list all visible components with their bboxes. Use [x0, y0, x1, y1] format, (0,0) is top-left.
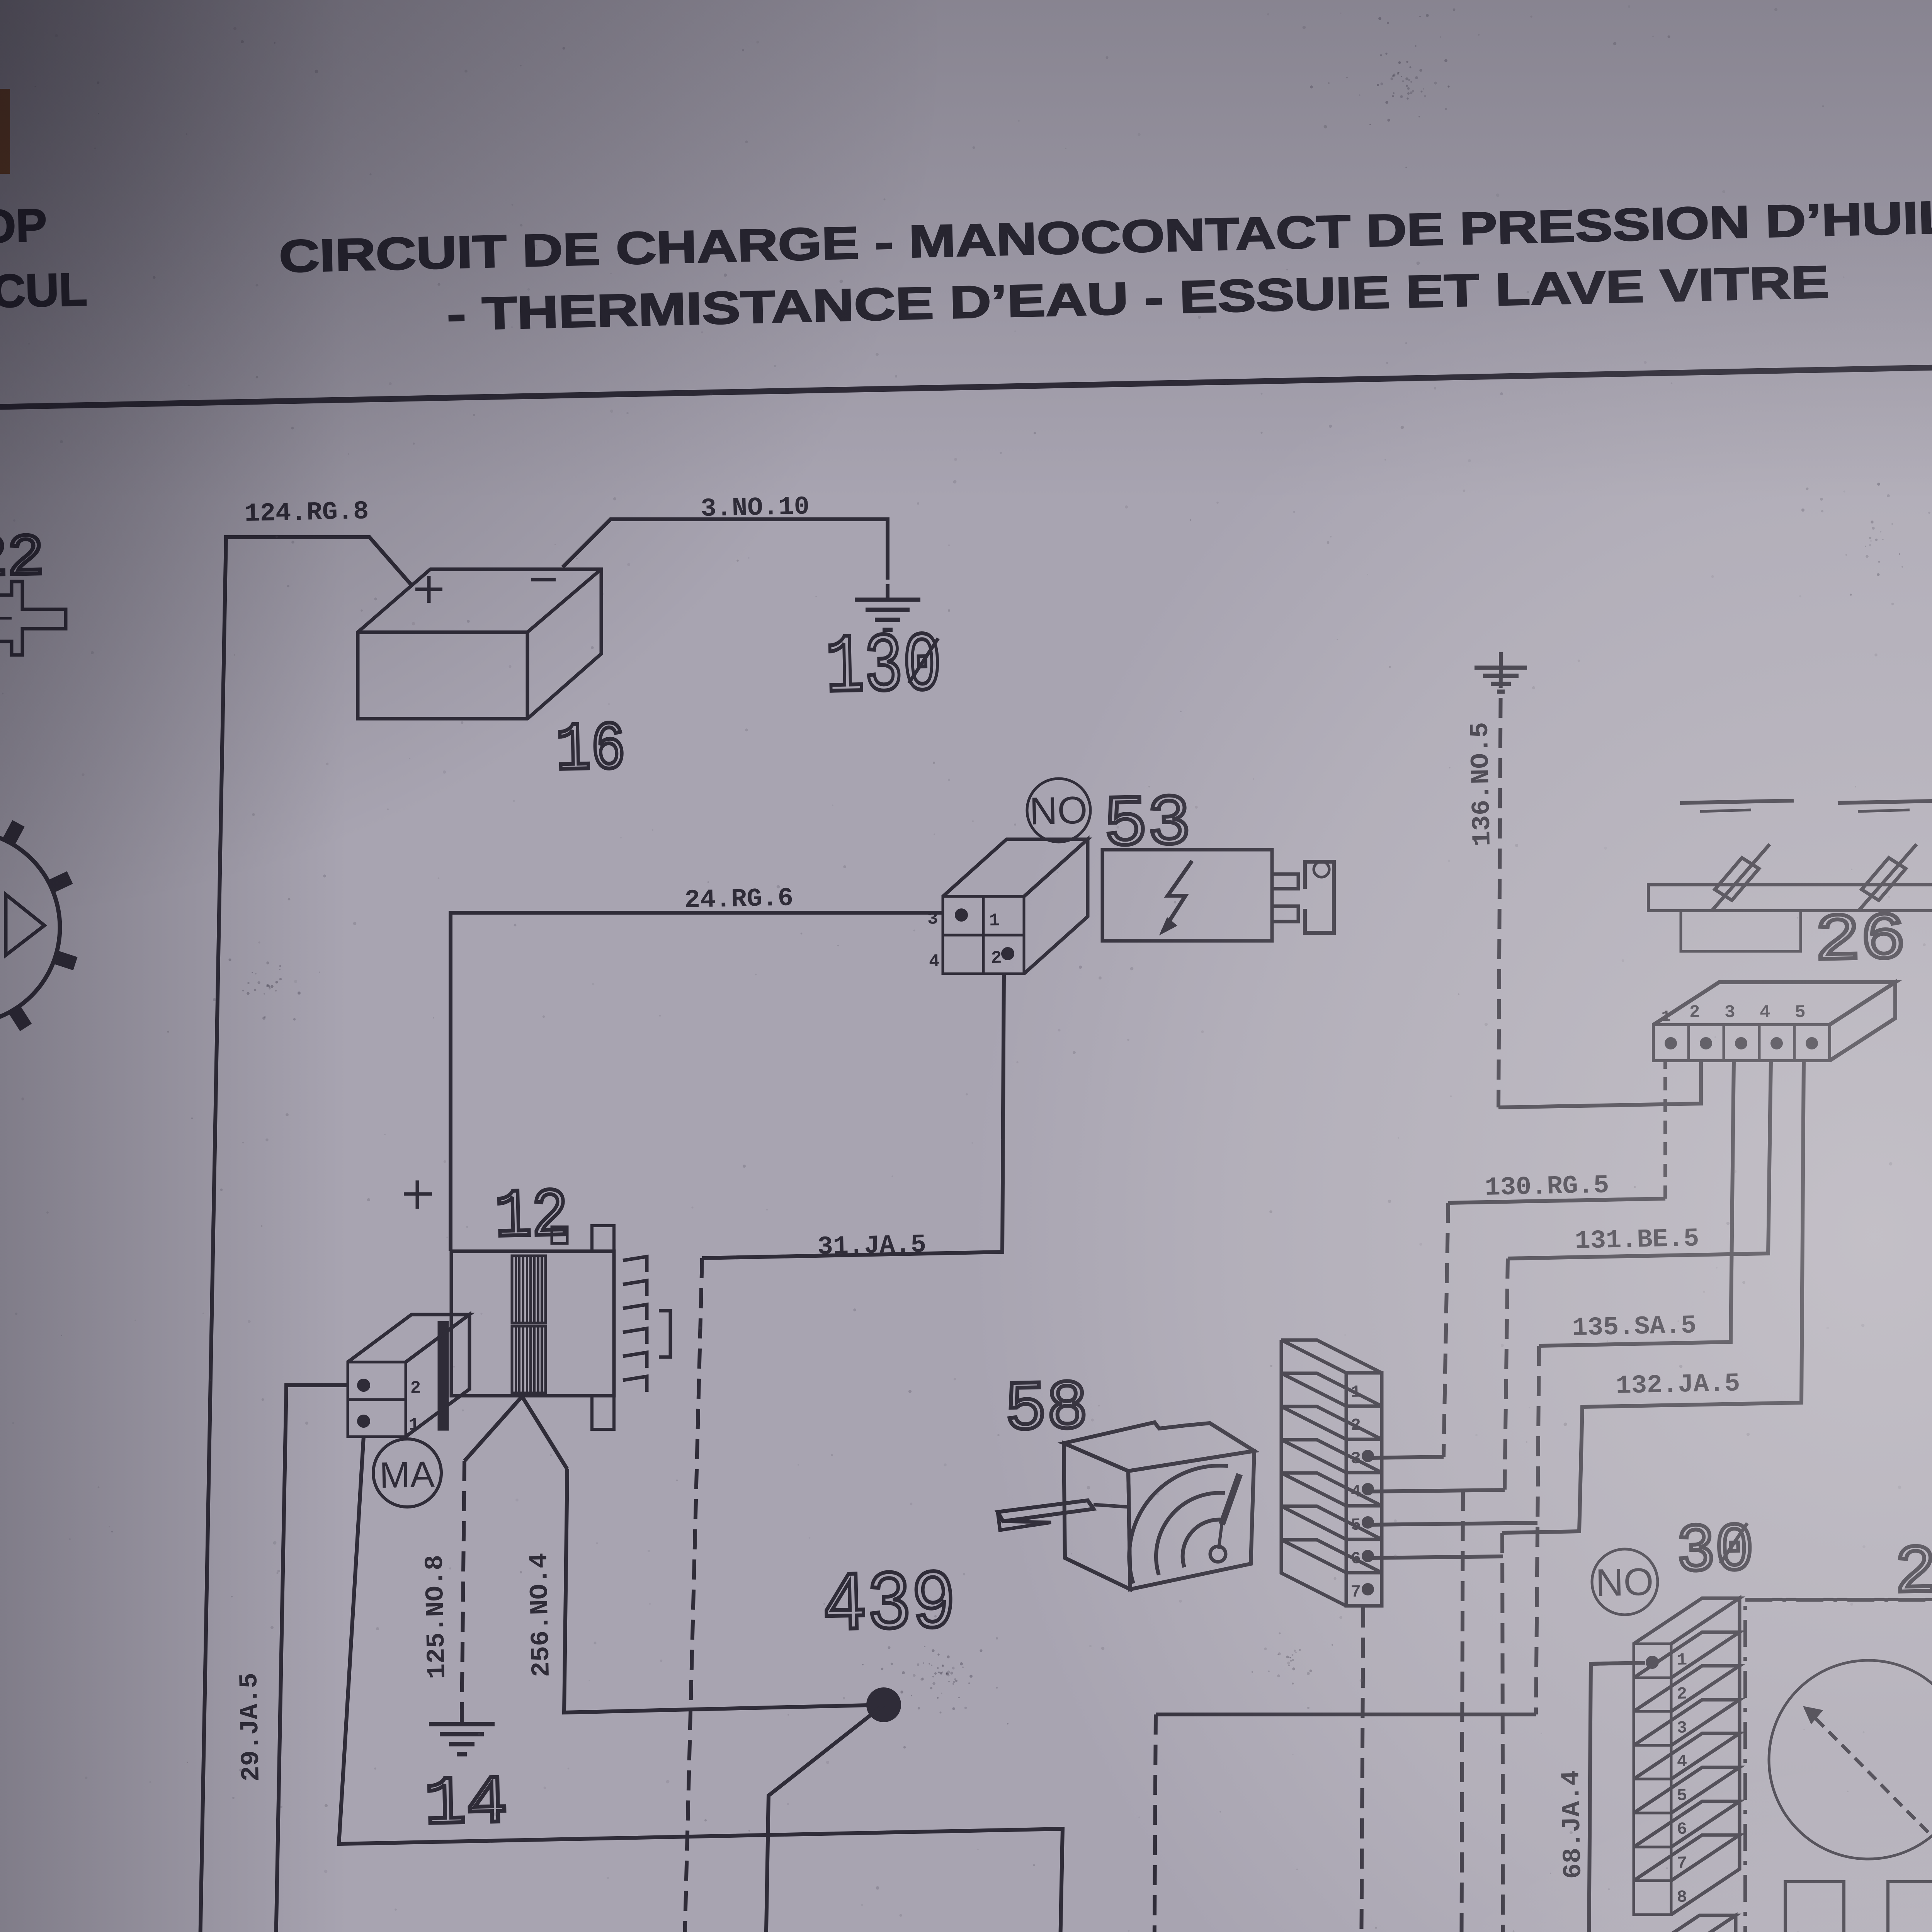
- svg-text:130: 130: [825, 619, 942, 716]
- svg-text:31.JA.5: 31.JA.5: [817, 1230, 927, 1262]
- svg-text:24.RG.6: 24.RG.6: [684, 884, 794, 915]
- svg-text:439: 439: [821, 1557, 957, 1654]
- svg-text:1: 1: [989, 910, 1000, 931]
- svg-text:MA: MA: [379, 1454, 435, 1496]
- svg-text:14: 14: [424, 1765, 509, 1844]
- svg-text:2: 2: [410, 1378, 421, 1398]
- svg-text:4: 4: [929, 951, 940, 972]
- svg-text:125.NO.8: 125.NO.8: [420, 1554, 452, 1679]
- svg-text:1: 1: [408, 1415, 420, 1435]
- svg-text:256.NO.4: 256.NO.4: [525, 1553, 557, 1677]
